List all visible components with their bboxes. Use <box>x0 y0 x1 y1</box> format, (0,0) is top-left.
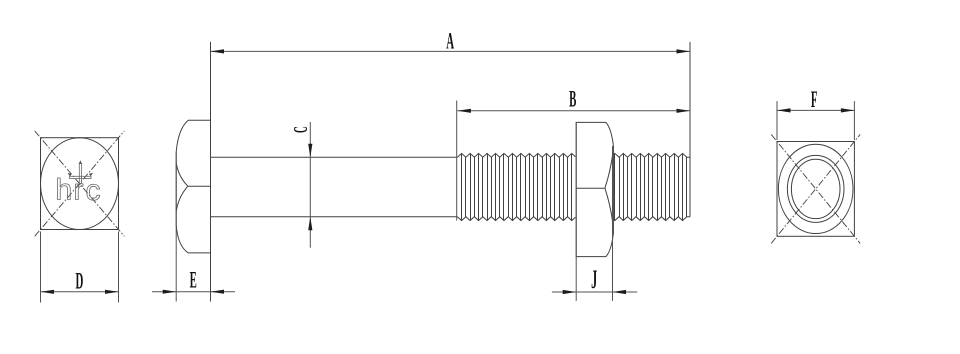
head inscribed circle <box>41 138 119 230</box>
head chamfer arc lower <box>176 186 188 211</box>
J arrow pointing right at left ext <box>563 290 577 294</box>
F extension line right <box>853 101 855 140</box>
nut square outline <box>777 142 854 237</box>
nut chamfer circle (outer) <box>778 144 853 233</box>
F extension line left <box>776 101 778 140</box>
D dimension line <box>41 291 119 293</box>
D extension line left <box>40 232 42 303</box>
A arrow right <box>677 49 691 53</box>
F arrow left <box>777 108 791 112</box>
svg-text:D: D <box>75 268 83 294</box>
D extension line right <box>118 232 120 303</box>
nut corner edge line <box>576 187 605 189</box>
thread crest zigzag bottom (left of nut) <box>457 217 575 221</box>
head bearing face (right edge) + A/E extension line <box>210 42 212 302</box>
C arrow up (bottom) <box>308 217 312 231</box>
C dimension line <box>309 122 311 248</box>
E arrow pointing right at left ext <box>163 290 177 294</box>
F dimension line <box>777 109 854 111</box>
thread flank lines (right of nut) <box>615 153 687 220</box>
D arrow right <box>105 290 119 294</box>
E dimension line <box>152 291 235 293</box>
nut outline (side view) <box>576 122 613 256</box>
shank bottom line <box>211 216 458 218</box>
head outer face extension line to E <box>175 152 177 302</box>
logo star mark: stem with top arrow <box>68 160 94 183</box>
F arrow right <box>841 108 855 112</box>
nut right face extension to J <box>612 146 614 301</box>
thread crest zigzag top (left of nut) <box>457 153 575 157</box>
bolt end face + A/B right extension line <box>689 42 691 217</box>
svg-text:F: F <box>811 86 818 112</box>
head chamfer arc upper <box>176 163 188 186</box>
centerline diagonal BL-TR <box>35 131 125 236</box>
J arrow pointing left at right ext <box>613 290 627 294</box>
nut centerline diagonal BL-TR <box>771 134 860 243</box>
C arrow down (top) <box>308 144 312 157</box>
thread crest zigzag bottom (right of nut) <box>613 217 690 221</box>
thread runout boundary + B extension line <box>456 101 458 221</box>
B dimension line <box>457 110 690 112</box>
nut thread major circle (middle) <box>787 155 844 222</box>
E arrow pointing left at right ext <box>211 290 225 294</box>
svg-text:C: C <box>290 126 312 133</box>
D arrow left <box>41 290 55 294</box>
nut chamfer arc upper <box>605 153 613 188</box>
nut hole circle (inner) <box>791 159 840 218</box>
svg-text:E: E <box>190 267 197 293</box>
svg-text:A: A <box>446 28 454 54</box>
A arrow left <box>211 49 225 53</box>
head outline (side view) <box>176 120 210 253</box>
B arrow left <box>457 109 471 113</box>
centerline diagonal TL-BR <box>35 131 125 236</box>
nut chamfer arc lower <box>605 188 613 223</box>
B arrow right <box>677 109 691 113</box>
nut left face extension to J <box>575 122 577 301</box>
shank top line <box>211 156 458 158</box>
svg-text:B: B <box>569 86 576 112</box>
head square outline <box>41 138 119 230</box>
J dimension line <box>552 291 637 293</box>
thread flank lines (left of nut) <box>462 153 572 220</box>
nut centerline diagonal TL-BR <box>771 134 860 243</box>
A dimension line <box>211 50 691 52</box>
head corner edge line <box>188 185 211 187</box>
thread crest zigzag top (right of nut) <box>613 153 690 157</box>
svg-text:J: J <box>591 266 597 294</box>
